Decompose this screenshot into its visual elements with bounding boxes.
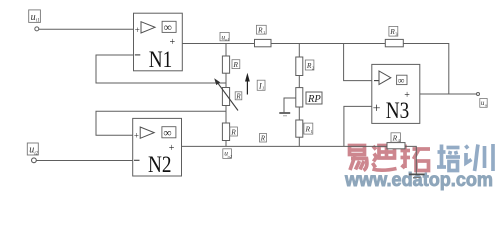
- svg-text:+: +: [134, 131, 139, 141]
- ground (R4): [409, 174, 425, 177]
- svg-text:RP: RP: [307, 94, 321, 105]
- svg-text:R: R: [235, 93, 241, 101]
- wire N1 output bus: [182, 43, 254, 45]
- current arrow I1: [245, 73, 250, 95]
- wire: [225, 141, 227, 147]
- svg-text:R: R: [232, 60, 238, 69]
- wire: [225, 106, 227, 124]
- svg-text:+: +: [135, 25, 140, 35]
- wire: [298, 107, 300, 120]
- potentiometer (left chain, adjustable): [214, 78, 242, 110]
- svg-text:o1: o1: [225, 37, 229, 42]
- svg-text:o2: o2: [228, 154, 233, 159]
- svg-text:www.edatop.com: www.edatop.com: [344, 170, 493, 191]
- svg-text:i1: i1: [36, 19, 40, 24]
- input terminal 2: [32, 158, 37, 163]
- node uo2 label: [223, 148, 233, 158]
- wire node A horizontal: [271, 43, 385, 45]
- wire N3 output: [420, 93, 477, 95]
- input terminal 1: [35, 27, 39, 31]
- svg-text:1: 1: [263, 30, 265, 35]
- resistor R3 (feedback): [385, 26, 403, 46]
- svg-text:+: +: [373, 102, 381, 117]
- svg-text:N3: N3: [386, 98, 410, 123]
- right chain: wire from bus down: [298, 44, 300, 58]
- resistor R (left chain bottom): [222, 123, 237, 141]
- wire N3 inverting input: [344, 44, 372, 81]
- node ui2 label: [27, 143, 38, 156]
- wire bottom bus: [182, 145, 388, 147]
- op-amp N1: [134, 13, 183, 72]
- wire N2 feedback: non-inverting input loop: [96, 111, 226, 135]
- wire N3 non-inverting input: [344, 106, 372, 146]
- resistor R (right chain bottom): [296, 120, 313, 137]
- wire input2 to N2: [36, 160, 132, 162]
- node I1 label: [257, 80, 265, 91]
- output terminal: [477, 93, 480, 96]
- svg-text:2: 2: [312, 66, 314, 71]
- svg-text:1: 1: [262, 86, 264, 91]
- svg-text:N1: N1: [149, 47, 173, 72]
- svg-text:1: 1: [311, 129, 313, 134]
- node label (center): [260, 134, 267, 143]
- watermark: blue CJK text (pei xun): [437, 144, 493, 171]
- svg-text:R: R: [230, 127, 236, 136]
- wire input1 to N1: [39, 28, 134, 30]
- left chain: wire from bus down: [225, 44, 227, 57]
- wire N1 feedback: inverting input loop: [96, 55, 226, 83]
- node uo1 label: [220, 32, 229, 42]
- svg-text:R: R: [260, 135, 266, 143]
- wire R3 to output node: [403, 44, 449, 95]
- svg-text:N2: N2: [148, 152, 172, 177]
- resistor R (left chain top): [222, 56, 239, 73]
- wire R4 to ground: [405, 146, 416, 173]
- wire: [225, 73, 227, 87]
- svg-text:i2: i2: [34, 151, 38, 156]
- wire: [298, 76, 300, 88]
- ground (RP wiper): [279, 113, 290, 116]
- resistor R4: [387, 133, 405, 149]
- potentiometer RP: [296, 88, 322, 107]
- op-amp N2: [133, 118, 182, 176]
- resistor R1: [255, 25, 272, 47]
- op-amp N3: [372, 64, 420, 123]
- resistor R2: [296, 57, 314, 76]
- svg-text:∞: ∞: [163, 127, 171, 139]
- node uo label: [480, 99, 488, 108]
- wire RP wiper to ground: [284, 98, 296, 112]
- svg-text:∞: ∞: [398, 76, 405, 86]
- wire: [298, 137, 300, 146]
- watermark: red CJK text (yi di tuo): [350, 144, 431, 171]
- node ui1 label: [29, 10, 41, 24]
- svg-text:∞: ∞: [164, 22, 172, 34]
